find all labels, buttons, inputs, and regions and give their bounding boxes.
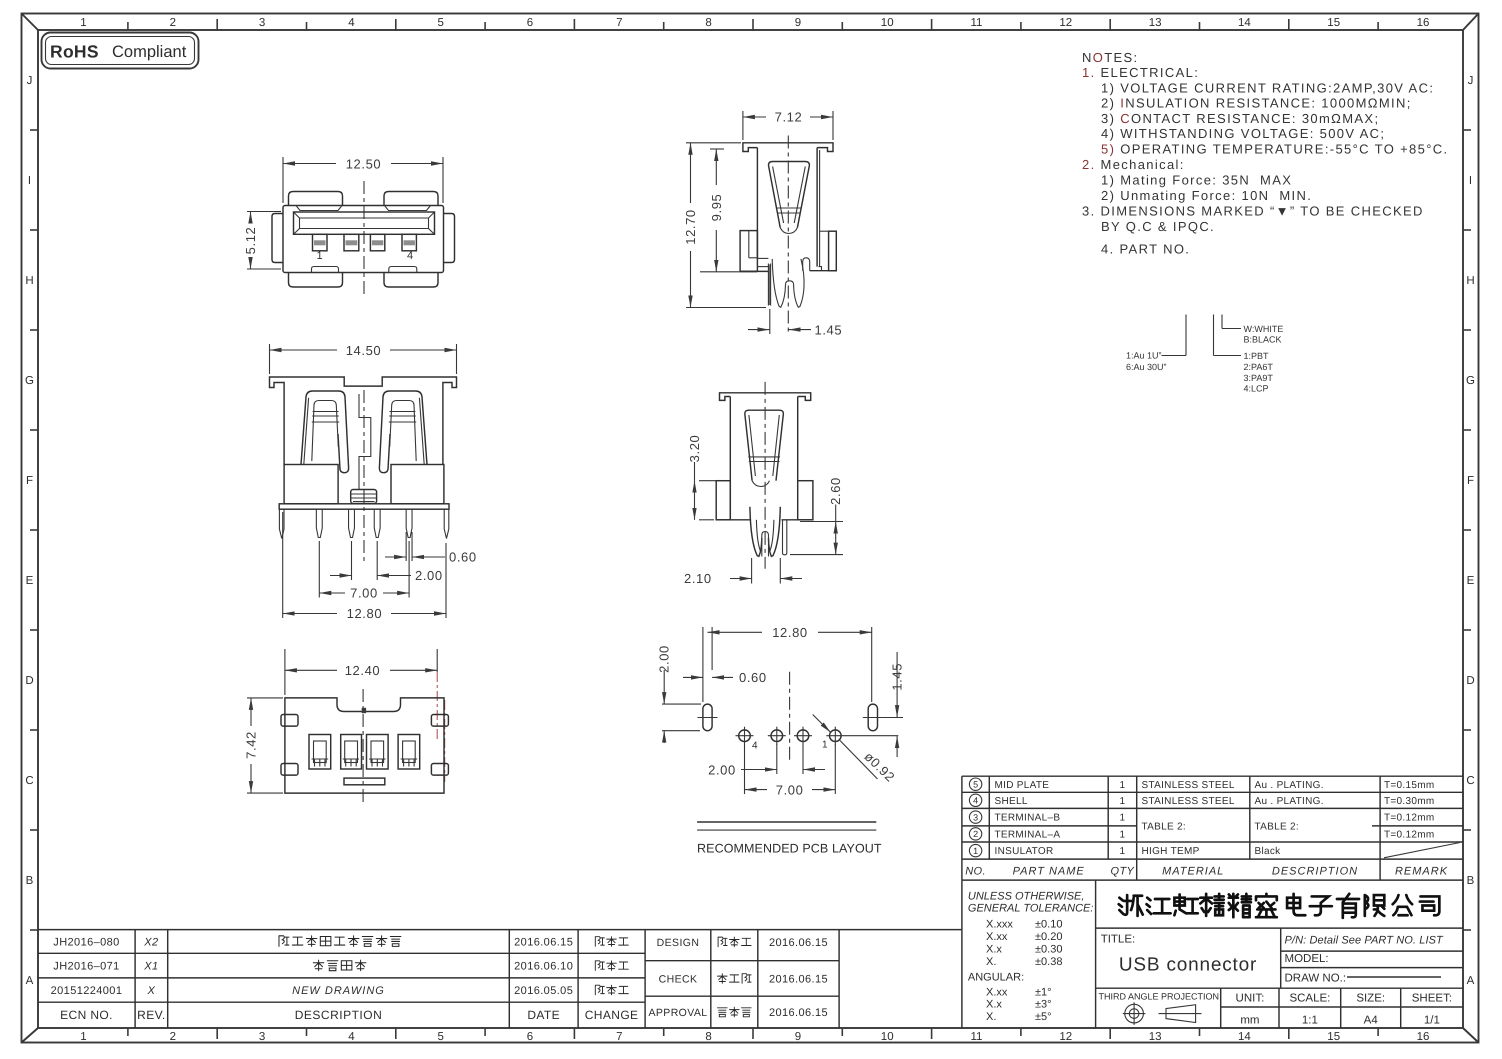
body walls xyxy=(756,148,758,259)
svg-text:±0.20: ±0.20 xyxy=(1035,931,1062,943)
svg-text:NO.: NO. xyxy=(965,866,986,878)
contact window 3 xyxy=(367,735,389,770)
svg-text:TERMINAL–A: TERMINAL–A xyxy=(995,830,1061,841)
svg-text:5.12: 5.12 xyxy=(243,227,258,255)
dim 1.45 xyxy=(748,309,842,337)
svg-text:DESIGN: DESIGN xyxy=(657,937,700,949)
svg-text:D: D xyxy=(25,675,33,687)
center line xyxy=(787,136,789,335)
svg-text:5: 5 xyxy=(973,780,978,790)
projection symbol xyxy=(1123,1002,1202,1025)
svg-text:15: 15 xyxy=(1327,17,1340,29)
svg-text:A4: A4 xyxy=(1364,1015,1379,1027)
svg-text:2. Mechanical:: 2. Mechanical: xyxy=(1082,157,1185,172)
svg-text:1:PBT: 1:PBT xyxy=(1244,351,1270,361)
bottom body xyxy=(740,270,768,272)
svg-text:I: I xyxy=(1469,175,1472,187)
title block xyxy=(962,880,1463,1028)
svg-text:14: 14 xyxy=(1238,1031,1251,1043)
svg-text:5) OPERATING TEMPERATURE:-55°C: 5) OPERATING TEMPERATURE:-55°C TO +85°C. xyxy=(1101,142,1448,157)
notch center mark xyxy=(362,708,366,713)
svg-text:ANGULAR:: ANGULAR: xyxy=(968,972,1024,984)
svg-text:7: 7 xyxy=(616,17,622,29)
svg-text:3) CONTACT RESISTANCE: 30mΩMAX: 3) CONTACT RESISTANCE: 30mΩMAX; xyxy=(1101,111,1379,126)
dim 2.00 xyxy=(330,541,443,583)
svg-text:J: J xyxy=(1468,75,1474,87)
svg-text:3: 3 xyxy=(259,17,265,29)
svg-text:W:WHITE: W:WHITE xyxy=(1244,324,1284,334)
svg-text:3. DIMENSIONS MARKED “▼” TO BE: 3. DIMENSIONS MARKED “▼” TO BE CHECKED xyxy=(1082,204,1424,219)
dim 7.12 xyxy=(743,110,833,140)
inner bottom latch tabs xyxy=(312,267,339,273)
dim 9.95 xyxy=(700,149,757,272)
svg-text:RECOMMENDED PCB LAYOUT: RECOMMENDED PCB LAYOUT xyxy=(697,842,882,856)
svg-text:INSULATOR: INSULATOR xyxy=(995,846,1054,857)
svg-text:E: E xyxy=(26,575,34,587)
svg-text:5: 5 xyxy=(437,1031,443,1043)
dim 2.00 vertical (slot length) xyxy=(657,645,701,743)
svg-text:SHEET:: SHEET: xyxy=(1412,993,1452,1005)
svg-text:1. ELECTRICAL:: 1. ELECTRICAL: xyxy=(1082,65,1199,80)
svg-text:13: 13 xyxy=(1149,17,1162,29)
VIEW C : bottom view xyxy=(244,649,449,805)
svg-text:3.20: 3.20 xyxy=(687,435,702,463)
svg-text:Compliant: Compliant xyxy=(112,43,187,61)
dim 0.60 xyxy=(385,532,477,565)
svg-text:12.80: 12.80 xyxy=(772,625,808,640)
svg-text:12.80: 12.80 xyxy=(347,606,383,621)
svg-text:2: 2 xyxy=(170,17,176,29)
center line xyxy=(764,382,766,569)
svg-text:0.60: 0.60 xyxy=(739,670,767,685)
svg-text:7: 7 xyxy=(616,1031,622,1043)
svg-text:I: I xyxy=(28,175,31,187)
svg-text:1: 1 xyxy=(1119,796,1125,807)
svg-text:MID PLATE: MID PLATE xyxy=(995,780,1050,791)
svg-text:D: D xyxy=(1466,675,1474,687)
svg-text:B: B xyxy=(1467,875,1475,887)
svg-text:2016.06.10: 2016.06.10 xyxy=(514,961,573,973)
pin 3 xyxy=(374,509,380,537)
center line xyxy=(363,181,365,296)
svg-text:12: 12 xyxy=(1059,17,1072,29)
leader 0.92 xyxy=(840,741,878,780)
tongue slot with bevel xyxy=(294,212,435,234)
latch catch piece xyxy=(351,490,377,504)
revision table xyxy=(38,930,962,1028)
contact 1 xyxy=(313,234,328,251)
svg-text:TERMINAL–B: TERMINAL–B xyxy=(995,813,1061,824)
lower body blocks xyxy=(284,465,338,504)
pin 1 xyxy=(316,509,322,537)
svg-text:X2: X2 xyxy=(143,937,158,949)
svg-text:14: 14 xyxy=(1238,17,1251,29)
svg-text:T=0.15mm: T=0.15mm xyxy=(1384,780,1434,791)
dim 12.70 xyxy=(683,143,766,308)
dim 3.20 xyxy=(687,435,716,520)
dim 2.00 pin pitch xyxy=(708,744,825,777)
left wing xyxy=(716,481,730,520)
tolerance box xyxy=(968,891,1094,1023)
svg-text:2) INSULATION RESISTANCE: 1000: 2) INSULATION RESISTANCE: 1000MΩMIN; xyxy=(1101,96,1412,111)
part number legend xyxy=(1126,315,1283,394)
svg-text:4: 4 xyxy=(348,1031,355,1043)
right side wing xyxy=(444,214,455,263)
svg-text:7.00: 7.00 xyxy=(776,782,804,797)
left side wing xyxy=(272,214,283,263)
VIEW A : front view of USB-A receptacle xyxy=(243,157,455,297)
VIEW D : side view (upper right) xyxy=(683,110,842,338)
contact window 2 xyxy=(341,735,362,770)
svg-text:2: 2 xyxy=(973,829,978,839)
row2: description xyxy=(313,960,324,971)
svg-text:UNIT:: UNIT: xyxy=(1236,993,1265,1005)
SMT fork tail xyxy=(772,258,810,308)
svg-text:CHECK: CHECK xyxy=(659,974,698,986)
svg-text:ø0.92: ø0.92 xyxy=(861,749,897,785)
svg-text:T=0.30mm: T=0.30mm xyxy=(1384,796,1434,807)
bottom middle slot xyxy=(344,778,385,785)
left slot xyxy=(703,704,712,731)
svg-text:X.: X. xyxy=(986,1011,996,1023)
parts list table xyxy=(962,776,1463,880)
svg-text:HIGH TEMP: HIGH TEMP xyxy=(1142,846,1200,857)
svg-text:2016.06.15: 2016.06.15 xyxy=(769,1007,828,1019)
leader arrow into hole 1 xyxy=(813,715,831,733)
hole 1 xyxy=(822,727,898,751)
notes text block xyxy=(1082,50,1448,257)
svg-text:12.50: 12.50 xyxy=(346,157,382,172)
right wing xyxy=(829,231,837,271)
svg-text:12.40: 12.40 xyxy=(345,663,381,678)
svg-text:5: 5 xyxy=(437,17,443,29)
svg-text:±1°: ±1° xyxy=(1035,986,1052,998)
dim 5.12 xyxy=(243,212,281,270)
latch spring (side) xyxy=(745,410,784,486)
dim 2.10 xyxy=(684,558,802,586)
svg-text:8: 8 xyxy=(705,1031,711,1043)
svg-text:1: 1 xyxy=(80,1031,86,1043)
svg-text:2) Unmating Force: 10N MIN.: 2) Unmating Force: 10N MIN. xyxy=(1101,188,1312,203)
svg-text:NEW DRAWING: NEW DRAWING xyxy=(292,985,385,997)
shell top flange outline xyxy=(270,377,457,465)
svg-text:Black: Black xyxy=(1255,846,1282,857)
svg-text:10: 10 xyxy=(881,1031,894,1043)
left wing xyxy=(740,231,757,272)
svg-text:PART NAME: PART NAME xyxy=(1013,866,1085,878)
svg-text:8: 8 xyxy=(705,17,711,29)
svg-text:H: H xyxy=(1466,275,1474,287)
body walls xyxy=(729,397,731,520)
svg-text:2: 2 xyxy=(170,1031,176,1043)
svg-text:7.12: 7.12 xyxy=(775,110,803,125)
svg-text:NOTES:: NOTES: xyxy=(1082,50,1139,65)
svg-text:16: 16 xyxy=(1417,1031,1430,1043)
top flange xyxy=(720,393,811,401)
svg-text:4: 4 xyxy=(407,250,413,262)
svg-text:13: 13 xyxy=(1149,1031,1162,1043)
dim 7.00 xyxy=(319,541,409,601)
svg-text:MATERIAL: MATERIAL xyxy=(1162,866,1224,878)
svg-text:11: 11 xyxy=(971,17,983,29)
PCB LAYOUT view xyxy=(657,625,905,856)
svg-text:TABLE 2:: TABLE 2: xyxy=(1142,822,1186,833)
center seam zigzag xyxy=(359,394,371,489)
svg-text:DESCRIPTION: DESCRIPTION xyxy=(295,1008,383,1022)
svg-text:TABLE 2:: TABLE 2: xyxy=(1255,822,1299,833)
svg-text:B: B xyxy=(26,875,34,887)
svg-text:1.45: 1.45 xyxy=(890,663,905,691)
shell body xyxy=(283,206,444,273)
svg-text:12: 12 xyxy=(1059,1031,1072,1043)
underline rules xyxy=(697,821,876,823)
dim 14.50 xyxy=(270,343,457,374)
hole 2 xyxy=(794,727,812,745)
board lock leg left xyxy=(279,509,284,538)
svg-text:10: 10 xyxy=(881,17,894,29)
svg-text:REMARK: REMARK xyxy=(1395,866,1448,878)
svg-text:1) VOLTAGE CURRENT RATING:2AMP: 1) VOLTAGE CURRENT RATING:2AMP,30V AC: xyxy=(1101,80,1434,95)
dim 12.40 xyxy=(285,649,437,742)
svg-text:T=0.12mm: T=0.12mm xyxy=(1384,830,1434,841)
svg-text:J: J xyxy=(27,75,33,87)
fork solder tail xyxy=(750,507,780,557)
VIEW E : side view (middle right) xyxy=(684,382,843,586)
svg-text:SIZE:: SIZE: xyxy=(1356,993,1385,1005)
svg-text:2.00: 2.00 xyxy=(657,645,672,673)
svg-text:±0.10: ±0.10 xyxy=(1035,919,1062,931)
svg-text:14.50: 14.50 xyxy=(346,343,382,358)
svg-text:P/N: Detail See PART NO. LIST: P/N: Detail See PART NO. LIST xyxy=(1285,935,1445,947)
svg-text:2.10: 2.10 xyxy=(684,571,712,586)
RoHS badge xyxy=(42,33,199,69)
change names col xyxy=(595,937,604,947)
svg-text:±0.30: ±0.30 xyxy=(1035,943,1062,955)
svg-text:Au . PLATING.: Au . PLATING. xyxy=(1255,780,1324,791)
svg-text:2.00: 2.00 xyxy=(708,762,736,777)
board lock leg right xyxy=(444,509,449,538)
dim 0.60 xyxy=(683,670,767,685)
svg-text:1: 1 xyxy=(80,17,86,29)
svg-text:DATE: DATE xyxy=(527,1008,560,1022)
spring latch left xyxy=(301,391,349,473)
svg-text:±0.38: ±0.38 xyxy=(1035,956,1062,968)
svg-text:1: 1 xyxy=(1119,846,1125,857)
svg-text:G: G xyxy=(1466,375,1475,387)
svg-text:1: 1 xyxy=(1119,830,1125,841)
body outline xyxy=(285,698,444,793)
svg-text:2016.05.05: 2016.05.05 xyxy=(514,985,573,997)
svg-text:JH2016–071: JH2016–071 xyxy=(53,961,119,973)
svg-text:±3°: ±3° xyxy=(1035,999,1052,1011)
svg-text:2016.06.15: 2016.06.15 xyxy=(514,937,573,949)
svg-text:X.x: X.x xyxy=(986,943,1002,955)
right hook finger xyxy=(803,258,810,271)
svg-text:7.42: 7.42 xyxy=(244,731,259,759)
svg-text:3:PA9T: 3:PA9T xyxy=(1244,373,1274,383)
svg-text:JH2016–080: JH2016–080 xyxy=(53,937,119,949)
dim 12.50 xyxy=(283,157,443,204)
svg-text:mm: mm xyxy=(1240,1015,1259,1027)
svg-text:4: 4 xyxy=(752,741,758,752)
top flange xyxy=(743,143,833,152)
svg-text:STAINLESS STEEL: STAINLESS STEEL xyxy=(1142,796,1235,807)
svg-text:SCALE:: SCALE: xyxy=(1289,993,1330,1005)
svg-text:4: 4 xyxy=(973,796,978,806)
svg-text:REV.: REV. xyxy=(137,1008,166,1022)
hole 3 xyxy=(768,727,786,745)
svg-text:SHELL: SHELL xyxy=(995,796,1028,807)
contact window 4 xyxy=(398,735,420,770)
svg-text:1: 1 xyxy=(973,846,978,856)
hole 4 xyxy=(736,727,759,752)
dim 12.80 xyxy=(283,512,446,621)
bottom mounting tabs xyxy=(289,273,343,288)
svg-text:C: C xyxy=(1466,775,1474,787)
svg-text:3: 3 xyxy=(259,1031,265,1043)
svg-text:1/1: 1/1 xyxy=(1424,1015,1440,1027)
svg-text:X: X xyxy=(147,985,156,997)
right wing xyxy=(798,481,813,520)
svg-text:4) WITHSTANDING VOLTAGE: 500V: 4) WITHSTANDING VOLTAGE: 500V AC; xyxy=(1101,126,1385,141)
dim 1.45 right xyxy=(883,652,905,757)
spring latch right (mirror) xyxy=(379,391,427,473)
svg-text:F: F xyxy=(1467,475,1474,487)
dim 7.00 xyxy=(745,744,836,797)
pin needle xyxy=(768,264,770,306)
svg-text:DESCRIPTION: DESCRIPTION xyxy=(1272,866,1358,878)
svg-text:MODEL:: MODEL: xyxy=(1285,953,1329,965)
svg-text:F: F xyxy=(26,475,33,487)
svg-text:E: E xyxy=(1467,575,1475,587)
svg-text:6: 6 xyxy=(527,1031,533,1043)
right slot xyxy=(868,704,877,731)
svg-text:APPROVAL: APPROVAL xyxy=(648,1007,707,1019)
svg-text:X1: X1 xyxy=(143,961,158,973)
svg-text:ECN NO.: ECN NO. xyxy=(60,1008,113,1022)
svg-text:BY Q.C & IPQC.: BY Q.C & IPQC. xyxy=(1101,219,1215,234)
dim 7.42 xyxy=(244,698,284,793)
svg-text:GENERAL TOLERANCE:: GENERAL TOLERANCE: xyxy=(968,903,1094,915)
svg-text:9: 9 xyxy=(795,17,801,29)
svg-text:TITLE:: TITLE: xyxy=(1101,934,1136,946)
contact 3 xyxy=(370,234,384,251)
svg-text:DRAW NO.:: DRAW NO.: xyxy=(1285,973,1347,985)
svg-text:Au . PLATING.: Au . PLATING. xyxy=(1255,796,1324,807)
svg-text:G: G xyxy=(25,375,34,387)
svg-text:X.xx: X.xx xyxy=(986,986,1008,998)
svg-text:H: H xyxy=(25,275,33,287)
svg-text:1.45: 1.45 xyxy=(815,322,843,337)
svg-text:7.00: 7.00 xyxy=(350,586,378,601)
svg-text:A: A xyxy=(1467,975,1475,987)
svg-text:UNLESS OTHERWISE,: UNLESS OTHERWISE, xyxy=(968,891,1085,903)
red witness line right xyxy=(444,700,446,782)
latch spring (side) xyxy=(769,162,810,234)
svg-text:B:BLACK: B:BLACK xyxy=(1244,335,1282,345)
center line xyxy=(789,672,791,761)
pin 2 xyxy=(349,509,355,537)
svg-text:12.70: 12.70 xyxy=(683,209,698,245)
svg-text:THIRD ANGLE PROJECTION: THIRD ANGLE PROJECTION xyxy=(1099,992,1220,1002)
pin 4 xyxy=(406,509,412,537)
svg-text:±5°: ±5° xyxy=(1035,1011,1052,1023)
svg-text:1: 1 xyxy=(316,250,322,262)
svg-text:X.xx: X.xx xyxy=(986,931,1008,943)
svg-text:4:LCP: 4:LCP xyxy=(1244,384,1269,394)
VIEW B : rear view with spring latches xyxy=(270,343,477,621)
contact 2 xyxy=(344,234,359,251)
company name (CJK approximations) xyxy=(1119,894,1440,918)
center line xyxy=(363,390,365,564)
svg-text:QTY: QTY xyxy=(1110,866,1134,878)
svg-text:C: C xyxy=(25,775,33,787)
svg-text:1:Au 1U”: 1:Au 1U” xyxy=(1126,351,1162,361)
svg-text:11: 11 xyxy=(971,1031,983,1043)
svg-text:1: 1 xyxy=(1119,780,1125,791)
svg-text:1:1: 1:1 xyxy=(1302,1015,1318,1027)
svg-text:15: 15 xyxy=(1327,1031,1340,1043)
svg-text:2.60: 2.60 xyxy=(828,477,843,505)
svg-text:2:PA6T: 2:PA6T xyxy=(1244,362,1274,372)
dim 2.60 xyxy=(790,477,843,554)
svg-text:4. PART NO.: 4. PART NO. xyxy=(1101,242,1190,257)
svg-text:9.95: 9.95 xyxy=(709,194,724,222)
svg-text:9: 9 xyxy=(795,1031,801,1043)
svg-text:6: 6 xyxy=(527,17,533,29)
svg-text:1: 1 xyxy=(1119,813,1125,824)
svg-text:1: 1 xyxy=(822,740,828,751)
svg-text:3: 3 xyxy=(973,812,978,822)
svg-text:2016.06.15: 2016.06.15 xyxy=(769,937,828,949)
svg-text:USB connector: USB connector xyxy=(1119,955,1257,976)
contact 4 xyxy=(402,234,416,251)
svg-text:X.x: X.x xyxy=(986,999,1002,1011)
svg-text:X.: X. xyxy=(986,956,996,968)
svg-text:2016.06.15: 2016.06.15 xyxy=(769,974,828,986)
bottom line xyxy=(716,519,750,521)
svg-text:RoHS: RoHS xyxy=(50,42,99,62)
center line xyxy=(362,689,364,805)
bottom flange xyxy=(279,504,449,509)
svg-text:16: 16 xyxy=(1417,17,1430,29)
approver names xyxy=(718,937,727,947)
top mounting tabs xyxy=(289,192,343,206)
contact window 1 xyxy=(309,735,331,770)
svg-text:A: A xyxy=(26,975,34,987)
svg-text:6:Au 30U”: 6:Au 30U” xyxy=(1126,362,1167,372)
svg-text:4: 4 xyxy=(348,17,355,29)
svg-text:CHANGE: CHANGE xyxy=(585,1008,639,1022)
right tabs xyxy=(431,715,448,727)
right thin tail xyxy=(783,520,787,555)
dim 12.80 xyxy=(703,625,872,702)
svg-text:T=0.12mm: T=0.12mm xyxy=(1384,813,1434,824)
svg-text:0.60: 0.60 xyxy=(449,550,477,565)
svg-text:STAINLESS STEEL: STAINLESS STEEL xyxy=(1142,780,1235,791)
svg-text:2.00: 2.00 xyxy=(415,568,443,583)
CJK small text row1: description xyxy=(279,936,751,1017)
svg-text:X.xxx: X.xxx xyxy=(986,919,1013,931)
left tabs xyxy=(281,715,298,727)
svg-text:20151224001: 20151224001 xyxy=(51,985,123,997)
svg-text:1) Mating Force: 35N MAX: 1) Mating Force: 35N MAX xyxy=(1101,173,1292,188)
